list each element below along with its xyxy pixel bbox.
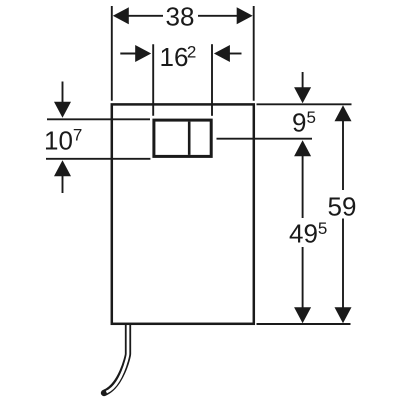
- dimension 10/7: upper arrowhead pointing down: [54, 102, 71, 118]
- pipe (supply tube) black outline: [104, 322, 128, 393]
- dimension 9/5: mid reference line (plate centre extension): [217, 138, 313, 140]
- dimension 9/5: upper arrow tail: [302, 72, 304, 89]
- dimension 38: left extension line: [111, 6, 113, 101]
- dimension 16/2: right arrowhead: [214, 45, 230, 62]
- dimension 16/2: right arrow tail: [229, 53, 242, 55]
- dimension 9/5: top reference line (tank top extension): [257, 103, 352, 105]
- dimension 59: dimension line lower segment: [342, 219, 344, 309]
- dimension 10/7: top reference line: [47, 118, 150, 120]
- dimension 16/2: left arrow tail: [120, 53, 136, 55]
- flush plate outer frame: [154, 120, 211, 156]
- dimension 10/7: lower arrowhead pointing up: [54, 160, 71, 176]
- dimension 49/5: label: [289, 219, 327, 249]
- dimension 59: dimension line upper segment: [342, 120, 344, 190]
- dimension 49/5: bottom arrowhead pointing down: [294, 307, 311, 323]
- dimension 16/2: right extension line: [211, 44, 213, 116]
- dimension 49/5: dimension line upper segment: [302, 155, 304, 218]
- dimension 10/7: upper arrow tail: [62, 82, 64, 103]
- flush plate divider: [188, 122, 191, 155]
- dimension 16/2: left arrowhead: [135, 45, 151, 62]
- bottom reference line: [257, 323, 351, 325]
- dimension 9/5: upper arrowhead pointing down: [294, 87, 311, 103]
- svg-text:59: 59: [328, 192, 357, 222]
- dimension 38: label: [166, 2, 195, 32]
- dimension 38: right tail line: [198, 15, 238, 17]
- cistern tank body: [112, 104, 254, 323]
- dimension 10/7: label: [44, 126, 82, 156]
- dimension 16/2: label: [160, 42, 197, 72]
- dimension 59: label: [328, 192, 357, 222]
- dimension 49/5: dimension line lower segment: [302, 247, 304, 308]
- dimension 38: left arrowhead: [113, 7, 129, 24]
- dimension 10/7: lower arrow tail: [62, 175, 64, 193]
- dimension 38: right arrowhead: [237, 7, 253, 24]
- dimension 16/2: left extension line: [152, 44, 154, 116]
- dimension 10/7: bottom reference line: [46, 158, 150, 160]
- dimension 9/5: label: [292, 108, 316, 138]
- dimension 9/5: lower arrowhead pointing up: [294, 140, 311, 156]
- dimension 59: top arrowhead pointing up: [335, 105, 352, 121]
- dimension 38: right extension line: [253, 6, 255, 101]
- dimension 59: bottom arrowhead pointing down: [335, 307, 352, 323]
- pipe inner white: [106, 322, 128, 392]
- svg-text:38: 38: [166, 2, 195, 32]
- dimension 38: left tail line: [128, 15, 163, 17]
